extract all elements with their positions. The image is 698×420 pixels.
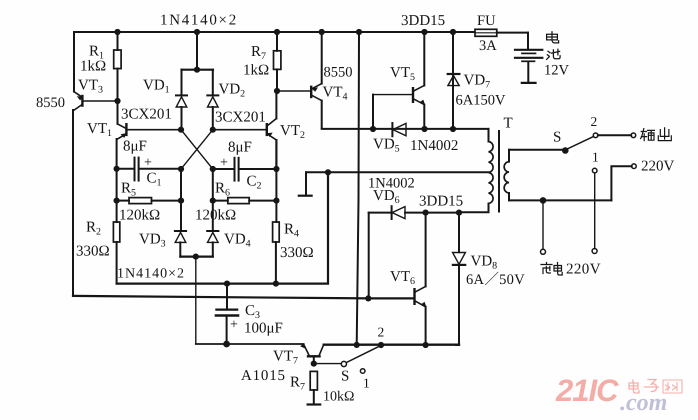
- svg-text:8μF: 8μF: [123, 139, 147, 155]
- svg-text:120kΩ: 120kΩ: [195, 208, 236, 224]
- wire: left rail (VT3 collector down to bottom-left corner): [72, 110, 74, 295]
- battery 12V: [515, 33, 542, 83]
- switch S (output selector): [562, 133, 598, 173]
- wire: VD3/VD4 cathode tie bar: [180, 256, 213, 258]
- resistor R1 1k: [114, 32, 121, 101]
- node: VT2 base / VD2 anode junction: [210, 127, 216, 133]
- transistor VT3 8550 (PNP): [74, 92, 118, 111]
- svg-text:R7: R7: [251, 44, 266, 62]
- diode VD4 1N4140: [207, 231, 218, 257]
- resistor R7(top) 1k: [274, 32, 281, 91]
- resistor R5 120k: [117, 198, 181, 204]
- svg-text:VT3: VT3: [78, 78, 103, 96]
- node: R1/VT3 base/VT1 collector junction: [114, 98, 120, 104]
- svg-text:8550: 8550: [324, 65, 353, 81]
- node: junctions on top rail: [114, 29, 456, 35]
- node: VD8 anode / transformer bottom junction: [456, 210, 462, 216]
- svg-text:VD2: VD2: [219, 82, 246, 100]
- diode VD5 1N4002: [392, 123, 406, 136]
- wire: inner bottom rail (R2 to R4/C3, up to centre-tap net): [117, 172, 328, 283]
- svg-text:21IC: 21IC: [555, 373, 619, 408]
- svg-text:2: 2: [591, 114, 598, 129]
- diode VD7 6A150V: [448, 32, 460, 129]
- svg-text:VD8: VD8: [471, 254, 498, 272]
- wire: 220V socket terminal to transformer bottom: [611, 166, 631, 200]
- label: battery text 电池 12V: [547, 32, 561, 60]
- label: mains text 市电220V: [541, 263, 562, 276]
- svg-text:6A150V: 6A150V: [456, 93, 506, 109]
- node: VD6 to VT6 base junction: [365, 295, 371, 301]
- diode VD1 1N4140: [176, 32, 213, 130]
- transistor VT1 3CX201: [117, 101, 181, 139]
- node: C3 top junction: [224, 281, 230, 287]
- svg-text:1: 1: [592, 150, 599, 165]
- svg-text:R6: R6: [215, 181, 230, 199]
- node: output terminal circle: [631, 133, 636, 138]
- svg-text:S: S: [341, 369, 349, 385]
- svg-text:VD4: VD4: [224, 232, 251, 250]
- node: R7 bottom / VT2 collector / VT4 base junction: [274, 88, 280, 94]
- svg-text:1kΩ: 1kΩ: [243, 63, 269, 79]
- svg-text:+: +: [220, 156, 228, 171]
- capacitor C2 8uF: [213, 158, 277, 181]
- ground: [299, 172, 312, 195]
- node: C1 left / VT1 emitter junction: [114, 166, 120, 172]
- svg-text:C1: C1: [147, 171, 162, 189]
- wire: VT4 collector bus to transformer primary top: [322, 128, 489, 130]
- svg-text:R5: R5: [121, 181, 136, 199]
- wire: centre-tap net to transformer tap: [306, 171, 489, 173]
- node: C3 bottom junction: [223, 341, 230, 348]
- svg-text:3DD15: 3DD15: [401, 13, 445, 29]
- node: VT5 base tap junction: [370, 126, 376, 132]
- svg-text:R4: R4: [284, 222, 299, 240]
- wire: VT2 emitter column (to R4 top): [275, 140, 277, 222]
- svg-text:VD1: VD1: [143, 78, 170, 96]
- svg-text:R2: R2: [86, 220, 101, 238]
- wire: VD3/VD4 tie down to VT7 emitter line: [195, 257, 197, 344]
- wire: cross-coupling X (VD2 node to C1 node): [181, 130, 213, 169]
- node: R6 left / VD4 junction: [210, 198, 216, 204]
- node: mains terminal circles: [541, 249, 598, 255]
- diode VD2 1N4140: [207, 70, 218, 130]
- transistor VT5 3DD15 (NPN): [373, 32, 425, 129]
- transistor VT4 8550 (PNP): [277, 32, 322, 128]
- svg-text:VT5: VT5: [390, 65, 415, 83]
- svg-text:3A: 3A: [479, 38, 497, 54]
- wire: +12V top supply rail: [74, 31, 528, 34]
- wire: VT7 emitter line (C3 bottom bus): [196, 343, 304, 345]
- svg-text:FU: FU: [477, 13, 496, 29]
- svg-text:VD7: VD7: [464, 73, 491, 91]
- diode VD8 6A/50V: [453, 213, 466, 345]
- node: R6 right junction: [273, 198, 279, 204]
- fuse FU 3A: [475, 29, 497, 36]
- svg-text:2: 2: [378, 325, 385, 340]
- node: C1 right / X-line junction: [178, 166, 184, 172]
- svg-text:VT2: VT2: [280, 123, 305, 141]
- resistor R6 120k: [213, 198, 277, 204]
- transistor VT7 A1015 (PNP): [301, 344, 324, 364]
- capacitor C1 8uF: [117, 158, 181, 181]
- wire: long link from top rail down to changeover bus: [357, 32, 359, 345]
- wire: C2 left column (to VD4 anode): [212, 169, 214, 231]
- svg-text:10kΩ: 10kΩ: [323, 390, 354, 405]
- svg-text:.com: .com: [620, 390, 667, 416]
- svg-text:1N4140×2: 1N4140×2: [117, 267, 185, 282]
- label: output text 输出: [641, 128, 672, 141]
- svg-text:VT6: VT6: [390, 269, 415, 287]
- node: R4 bottom junction: [273, 281, 279, 287]
- wire: mains terminal leads: [542, 200, 544, 249]
- node: VT6 emitter junction on bus: [423, 342, 429, 348]
- wire: C1 right column (to VD3 anode): [180, 169, 182, 231]
- svg-text:3CX201: 3CX201: [215, 110, 266, 126]
- node: VD1/VD2 cathode tie to top rail: [194, 67, 200, 73]
- node: C2 left / X-line junction: [210, 166, 216, 172]
- transformer T: [459, 129, 611, 212]
- svg-text:VT7: VT7: [273, 349, 298, 367]
- svg-text:100μF: 100μF: [244, 321, 283, 337]
- resistor R7 10k: [308, 371, 321, 404]
- capacitor C3 100uF: [216, 284, 238, 344]
- wire: VT1 emitter column (to R2 top): [116, 139, 118, 222]
- node: VT7 base / R7 junction: [311, 361, 317, 367]
- diode VD3 1N4140: [175, 231, 186, 257]
- node: mains junction on secondary bottom: [540, 197, 547, 204]
- svg-text:VD5: VD5: [373, 137, 400, 155]
- svg-text:+: +: [144, 156, 152, 171]
- svg-text:1N4002: 1N4002: [410, 138, 458, 154]
- svg-text:C3: C3: [245, 303, 260, 321]
- svg-text:12V: 12V: [544, 63, 570, 79]
- resistor R2 330: [113, 222, 119, 283]
- svg-text:8550: 8550: [36, 95, 65, 111]
- svg-text:120kΩ: 120kΩ: [119, 208, 160, 224]
- svg-text:1: 1: [363, 376, 370, 391]
- svg-text:3DD15: 3DD15: [419, 194, 463, 210]
- node: C2 right / VT2 emitter junction: [273, 166, 279, 172]
- node: R5 right / VD3 junction: [178, 198, 184, 204]
- svg-text:A1015: A1015: [241, 368, 286, 384]
- diode VD6 1N4002: [369, 206, 459, 298]
- node: VT5 emitter junction: [421, 126, 427, 132]
- node: VD7 anode junction: [450, 126, 456, 132]
- svg-text:6A／50V: 6A／50V: [466, 271, 525, 288]
- node: switch S contact 2 junction on bus: [378, 342, 384, 348]
- svg-text:T: T: [504, 116, 513, 132]
- wire: outer bottom rail (VT3 collector to VT6 base): [73, 296, 368, 299]
- svg-text:1N4140×2: 1N4140×2: [160, 13, 238, 29]
- wire: selector pin2 to output terminal: [598, 134, 631, 136]
- watermark 21IC.com 电子网: [555, 373, 667, 416]
- svg-text:C2: C2: [247, 174, 262, 192]
- wire: changeover bus (VT7 collector to VD8 cathode): [324, 344, 459, 346]
- resistor R4 330: [273, 222, 280, 284]
- svg-text:VT1: VT1: [87, 121, 112, 139]
- wire: cross-coupling X (VD1 node to C2 node): [181, 130, 213, 169]
- svg-text:R7: R7: [290, 375, 305, 393]
- svg-text:S: S: [553, 130, 561, 146]
- node: inner rail riser junction: [325, 169, 331, 175]
- wire: selector pin1 to mains terminal: [594, 173, 596, 249]
- node: VT6 collector junction: [423, 210, 429, 216]
- node: VT1 base / VD1 anode junction: [178, 127, 184, 133]
- node: 220V terminal circle: [632, 164, 637, 169]
- svg-text:8μF: 8μF: [228, 140, 252, 156]
- svg-text:220V: 220V: [641, 159, 675, 175]
- svg-text:220V: 220V: [566, 262, 601, 278]
- node: R5 left junction: [114, 198, 120, 204]
- node: VD3/VD4 tie junction: [193, 254, 199, 260]
- svg-text:+: +: [230, 318, 238, 333]
- svg-text:1kΩ: 1kΩ: [80, 59, 106, 75]
- transistor VT2 3CX201: [213, 91, 276, 169]
- svg-text:VT4: VT4: [323, 85, 348, 103]
- switch S (bottom, start switch): [314, 346, 380, 373]
- svg-text:3CX201: 3CX201: [121, 107, 172, 123]
- transistor VT6 3DD15 (NPN): [368, 213, 426, 345]
- svg-text:VD3: VD3: [139, 232, 166, 250]
- svg-text:330Ω: 330Ω: [280, 245, 314, 261]
- node: long link junction on bus: [354, 342, 360, 348]
- svg-text:330Ω: 330Ω: [76, 244, 110, 260]
- wire: left rail (VT3 emitter up to top rail): [73, 32, 75, 92]
